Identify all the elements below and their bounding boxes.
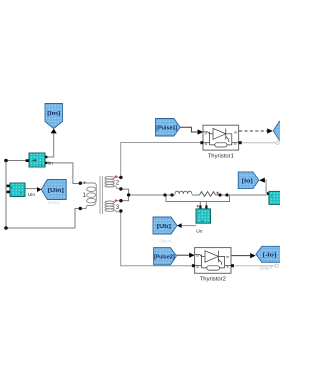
svg-text:Iin: Iin	[48, 160, 53, 166]
svg-text:1: 1	[83, 192, 87, 199]
svg-text:[-Io]: [-Io]	[263, 253, 277, 259]
svg-text:[Ub]: [Ub]	[157, 224, 171, 230]
svg-text:g: g	[196, 252, 198, 257]
svg-text:i: i	[271, 193, 272, 198]
svg-text:i: i	[41, 162, 42, 167]
svg-text:Uin: Uin	[28, 192, 36, 198]
svg-text:Uo: Uo	[196, 229, 202, 235]
svg-text:2: 2	[116, 180, 120, 187]
svg-text:[Im]: [Im]	[47, 111, 60, 117]
svg-text:Thyristor2: Thyristor2	[200, 277, 226, 283]
svg-text:v: v	[201, 218, 203, 223]
svg-text:Goto7: Goto7	[260, 265, 273, 270]
svg-text:v: v	[20, 190, 22, 195]
svg-text:[Pulse1]: [Pulse1]	[156, 126, 177, 132]
svg-text:k: k	[227, 264, 229, 269]
svg-text:[Io]: [Io]	[242, 179, 253, 185]
svg-text:Goto1: Goto1	[48, 200, 60, 205]
svg-text:3: 3	[116, 204, 120, 211]
svg-text:[Pulse2]: [Pulse2]	[154, 254, 175, 260]
svg-text:Thyristor1: Thyristor1	[208, 153, 234, 159]
svg-text:k: k	[234, 141, 236, 146]
svg-text:g: g	[205, 130, 207, 135]
svg-text:[Uin]: [Uin]	[48, 188, 64, 194]
svg-text:Goto4: Goto4	[159, 238, 171, 243]
